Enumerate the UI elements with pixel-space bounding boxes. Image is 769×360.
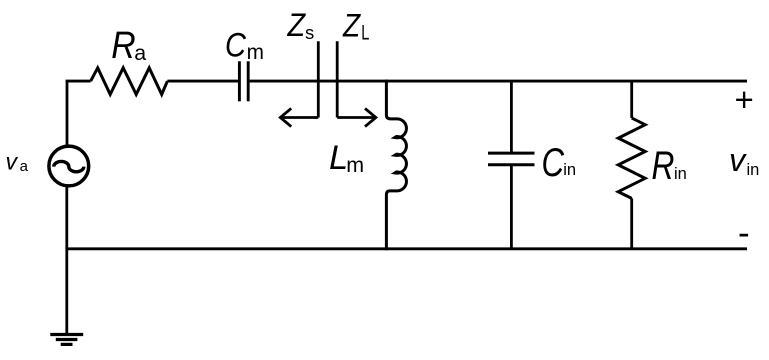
svg-text:a: a — [20, 158, 29, 175]
voltage source V1 va circle — [49, 146, 89, 186]
svg-text:s: s — [305, 22, 314, 43]
svg-text:-: - — [738, 214, 750, 253]
svg-text:+: + — [735, 81, 754, 118]
capacitor C2 Cin top plate — [488, 152, 535, 155]
wire Ra to Cm — [167, 80, 238, 83]
svg-text:in: in — [674, 165, 687, 183]
capacitor C1 Cm left plate — [238, 61, 241, 101]
wire Cin branch lower — [510, 165, 513, 249]
resistor R1 Ra — [91, 68, 168, 95]
ground bar 3 — [61, 343, 73, 346]
svg-text:m: m — [346, 153, 364, 177]
svg-text:C: C — [542, 141, 565, 185]
ground bar 2 — [56, 338, 78, 341]
node Zs reference line — [317, 41, 320, 117]
svg-text:in: in — [563, 161, 576, 179]
svg-text:a: a — [134, 41, 146, 65]
wire source to ground — [65, 187, 68, 335]
inductor L1 Lm — [386, 80, 406, 251]
arrow Zs pointing left — [281, 116, 318, 119]
svg-text:R: R — [652, 144, 675, 188]
capacitor C1 Cm right plate — [247, 61, 250, 101]
ground bar 1 — [50, 333, 83, 336]
voltage source sine symbol — [54, 161, 84, 171]
svg-text:L: L — [361, 22, 369, 45]
svg-text:v: v — [729, 142, 747, 178]
svg-text:Z: Z — [342, 7, 361, 43]
resistor R2 Rin — [618, 118, 645, 198]
wire source top lead — [66, 81, 69, 145]
node ZL reference line — [336, 41, 339, 117]
svg-text:R: R — [111, 25, 135, 67]
svg-text:v: v — [6, 149, 19, 175]
wire Rin branch upper — [630, 81, 633, 118]
svg-text:in: in — [747, 161, 760, 179]
svg-text:C: C — [225, 26, 246, 64]
wire Rin branch lower — [630, 198, 633, 248]
capacitor C2 Cin bottom plate — [488, 163, 535, 166]
svg-text:Z: Z — [287, 7, 307, 43]
wire bottom main — [67, 247, 747, 250]
wire top-left corner at source — [67, 81, 91, 82]
wire top main — [250, 80, 747, 83]
arrow ZL pointing right — [337, 116, 375, 119]
svg-text:m: m — [247, 41, 264, 64]
wire Cin branch upper — [510, 81, 513, 153]
